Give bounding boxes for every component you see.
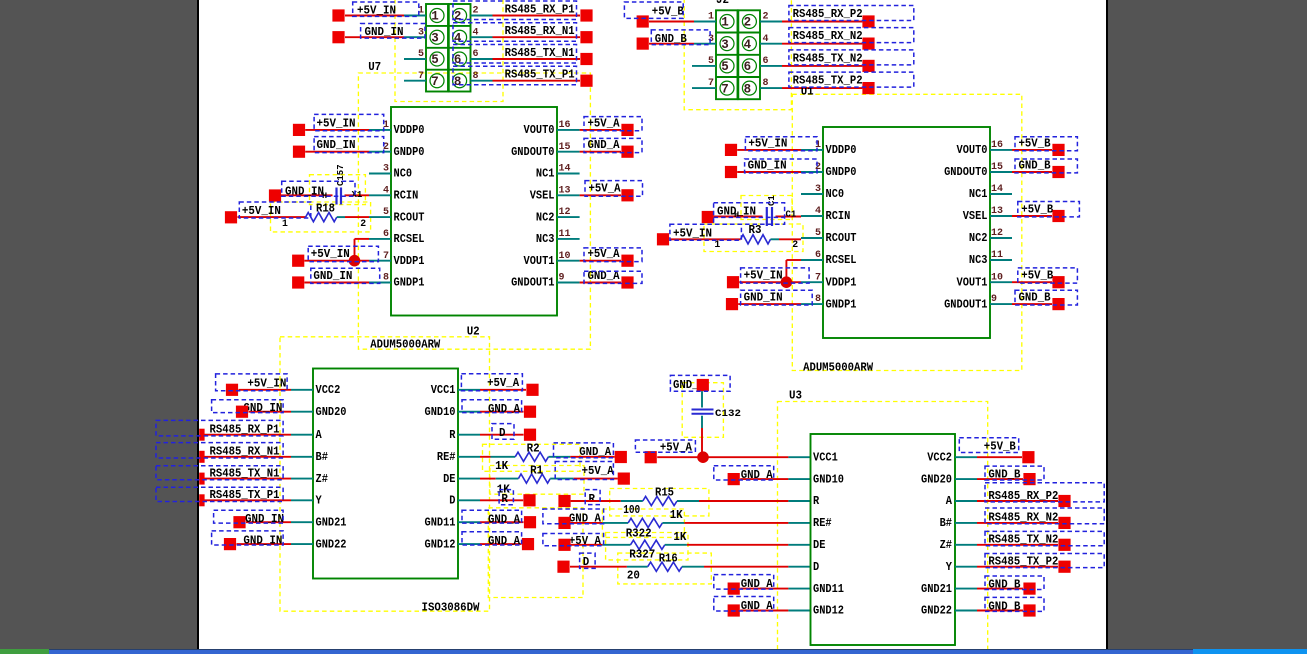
svg-text:3: 3 (383, 164, 389, 175)
svg-text:2: 2 (454, 10, 462, 24)
svg-text:D: D (449, 495, 455, 508)
svg-text:RS485_TX_N2: RS485_TX_N2 (793, 51, 863, 65)
svg-text:B#: B# (316, 451, 328, 464)
svg-text:+5V_IN: +5V_IN (744, 269, 783, 283)
svg-text:A: A (316, 429, 322, 442)
svg-text:+5V_A: +5V_A (487, 376, 520, 390)
svg-text:GND11: GND11 (813, 583, 844, 596)
svg-text:DE: DE (813, 539, 825, 552)
svg-text:ISO3086DW: ISO3086DW (422, 600, 481, 614)
svg-text:8: 8 (473, 71, 479, 82)
svg-text:1: 1 (721, 16, 729, 30)
svg-text:GND22: GND22 (921, 605, 952, 618)
svg-text:6: 6 (473, 49, 479, 60)
svg-text:+5V_IN: +5V_IN (748, 136, 787, 150)
svg-text:RS485_RX_N2: RS485_RX_N2 (988, 511, 1058, 525)
svg-text:6: 6 (744, 60, 752, 74)
svg-text:GND_A: GND_A (488, 402, 521, 416)
svg-text:13: 13 (991, 206, 1003, 217)
svg-text:2: 2 (744, 16, 752, 30)
svg-text:RS485_TX_N1: RS485_TX_N1 (210, 466, 280, 480)
svg-text:7: 7 (431, 75, 439, 89)
svg-text:VOUT1: VOUT1 (957, 276, 988, 289)
svg-text:7: 7 (815, 272, 821, 283)
svg-text:GND10: GND10 (813, 473, 844, 486)
svg-text:NC2: NC2 (536, 211, 555, 224)
svg-text:+5V_B: +5V_B (652, 5, 685, 19)
svg-text:1: 1 (815, 140, 821, 151)
svg-text:GND11: GND11 (425, 516, 456, 529)
svg-text:VOUT0: VOUT0 (957, 144, 988, 157)
svg-text:NC0: NC0 (826, 188, 845, 201)
svg-text:RS485_TX_P1: RS485_TX_P1 (210, 488, 280, 502)
svg-text:RCOUT: RCOUT (826, 232, 857, 245)
svg-text:R327: R327 (629, 548, 655, 562)
svg-text:2: 2 (792, 239, 798, 250)
svg-text:RS485_RX_N2: RS485_RX_N2 (793, 29, 863, 43)
svg-text:RCIN: RCIN (826, 210, 851, 223)
svg-text:Z#: Z# (940, 539, 952, 552)
svg-text:GND_IN: GND_IN (748, 158, 787, 172)
svg-text:8: 8 (744, 82, 752, 96)
svg-text:R18: R18 (316, 202, 335, 216)
svg-text:GND_IN: GND_IN (245, 512, 284, 526)
svg-text:GND21: GND21 (921, 583, 952, 596)
svg-text:GND_IN: GND_IN (365, 25, 404, 39)
svg-text:VCC1: VCC1 (813, 451, 838, 464)
svg-text:5: 5 (721, 60, 729, 74)
svg-text:Y: Y (946, 561, 952, 574)
svg-text:9: 9 (991, 294, 997, 305)
svg-text:VCC1: VCC1 (431, 384, 456, 397)
svg-text:14: 14 (991, 184, 1003, 195)
svg-text:C157: C157 (336, 164, 346, 186)
svg-text:U3: U3 (789, 389, 802, 403)
svg-text:12: 12 (559, 207, 571, 218)
svg-text:D: D (813, 561, 819, 574)
svg-text:NC2: NC2 (969, 232, 988, 245)
svg-text:RS485_RX_P2: RS485_RX_P2 (793, 7, 863, 21)
svg-text:VDDP0: VDDP0 (826, 144, 857, 157)
svg-text:GNDP0: GNDP0 (826, 166, 857, 179)
svg-text:3: 3 (431, 31, 439, 45)
svg-text:RS485_RX_P1: RS485_RX_P1 (505, 3, 575, 17)
svg-text:RS485_TX_N2: RS485_TX_N2 (988, 533, 1058, 547)
svg-text:GNDP1: GNDP1 (826, 298, 857, 311)
svg-text:R2: R2 (527, 442, 540, 456)
svg-text:11: 11 (559, 229, 571, 240)
svg-text:RCSEL: RCSEL (826, 254, 857, 267)
svg-text:+5V_B: +5V_B (1019, 136, 1052, 150)
svg-text:100: 100 (623, 503, 640, 517)
svg-text:NC3: NC3 (536, 233, 555, 246)
svg-text:D: D (499, 426, 506, 440)
svg-text:5: 5 (815, 228, 821, 239)
svg-text:NC3: NC3 (969, 254, 988, 267)
svg-text:VOUT0: VOUT0 (524, 124, 555, 137)
svg-text:6: 6 (454, 53, 462, 67)
svg-text:4: 4 (815, 206, 821, 217)
svg-text:U7: U7 (368, 60, 381, 74)
svg-text:GND_A: GND_A (488, 513, 521, 527)
svg-text:RCSEL: RCSEL (394, 233, 425, 246)
svg-text:1: 1 (282, 218, 288, 229)
svg-text:GND_IN: GND_IN (317, 138, 356, 152)
svg-text:+5V_B: +5V_B (1021, 269, 1054, 283)
svg-text:+5V_B: +5V_B (1021, 202, 1054, 216)
svg-text:1: 1 (431, 10, 439, 24)
svg-text:+5V_IN: +5V_IN (317, 116, 356, 130)
svg-text:GND10: GND10 (425, 406, 456, 419)
svg-text:R: R (449, 429, 455, 442)
svg-text:8: 8 (763, 78, 769, 89)
svg-text:8: 8 (815, 294, 821, 305)
svg-text:RS485_TX_P2: RS485_TX_P2 (988, 555, 1058, 569)
svg-text:Y: Y (316, 495, 322, 508)
svg-text:2: 2 (360, 218, 366, 229)
svg-text:13: 13 (559, 185, 571, 196)
svg-text:RS485_RX_P1: RS485_RX_P1 (210, 423, 280, 437)
svg-text:6: 6 (815, 250, 821, 261)
svg-text:3: 3 (815, 184, 821, 195)
svg-text:Z#: Z# (316, 473, 328, 486)
svg-text:VCC2: VCC2 (927, 451, 952, 464)
svg-text:GND_B: GND_B (1019, 158, 1052, 172)
svg-text:J2: J2 (716, 0, 729, 7)
svg-text:RS485_RX_N1: RS485_RX_N1 (210, 445, 280, 459)
svg-text:RCIN: RCIN (394, 190, 419, 203)
svg-text:ADUM5000ARW: ADUM5000ARW (370, 338, 441, 352)
svg-text:8: 8 (454, 75, 462, 89)
svg-text:NC0: NC0 (394, 168, 413, 181)
svg-text:VDDP0: VDDP0 (394, 124, 425, 137)
svg-text:4: 4 (473, 27, 479, 38)
svg-text:NC1: NC1 (969, 188, 988, 201)
svg-text:GND_IN: GND_IN (313, 269, 352, 283)
svg-text:GNDOUT0: GNDOUT0 (511, 146, 554, 159)
svg-text:VCC2: VCC2 (316, 384, 341, 397)
svg-text:VSEL: VSEL (963, 210, 988, 223)
svg-text:GNDOUT0: GNDOUT0 (944, 166, 987, 179)
svg-text:DE: DE (443, 473, 455, 486)
svg-text:GND_B: GND_B (1019, 291, 1052, 305)
svg-text:NC1: NC1 (536, 168, 555, 181)
svg-text:A: A (946, 495, 952, 508)
svg-text:GND_A: GND_A (488, 534, 521, 548)
svg-text:R1: R1 (530, 464, 543, 478)
svg-text:VOUT1: VOUT1 (524, 255, 555, 268)
svg-text:+5V_IN: +5V_IN (311, 247, 350, 261)
svg-text:+5V_A: +5V_A (588, 247, 621, 261)
svg-text:6: 6 (763, 56, 769, 67)
svg-text:X1: X1 (352, 190, 363, 200)
svg-text:VDDP1: VDDP1 (394, 255, 425, 268)
svg-text:RS485_RX_P2: RS485_RX_P2 (988, 489, 1058, 503)
svg-text:R16: R16 (659, 552, 678, 566)
svg-text:VDDP1: VDDP1 (826, 276, 857, 289)
svg-text:GNDP1: GNDP1 (394, 277, 425, 290)
svg-text:2: 2 (473, 6, 479, 17)
svg-text:9: 9 (559, 273, 565, 284)
svg-text:4: 4 (383, 185, 389, 196)
svg-text:+5V_A: +5V_A (589, 182, 622, 196)
svg-text:B#: B# (940, 517, 952, 530)
svg-text:GND20: GND20 (316, 406, 347, 419)
svg-text:GNDOUT1: GNDOUT1 (511, 277, 554, 290)
svg-text:16: 16 (559, 120, 571, 131)
svg-text:10: 10 (559, 251, 571, 262)
svg-text:R15: R15 (655, 486, 674, 500)
svg-text:GNDP0: GNDP0 (394, 146, 425, 159)
svg-text:GND20: GND20 (921, 473, 952, 486)
svg-text:+5V_A: +5V_A (582, 464, 615, 478)
svg-text:+5V_IN: +5V_IN (357, 3, 396, 17)
svg-text:2: 2 (763, 12, 769, 23)
svg-text:+5V_IN: +5V_IN (242, 204, 281, 218)
svg-text:H: H (734, 210, 739, 220)
svg-text:GND12: GND12 (425, 538, 456, 551)
svg-text:R: R (813, 495, 819, 508)
svg-text:C1: C1 (767, 195, 777, 206)
svg-text:VSEL: VSEL (530, 190, 555, 203)
svg-text:6: 6 (383, 229, 389, 240)
svg-text:RS485_TX_N1: RS485_TX_N1 (505, 46, 575, 60)
svg-text:GND22: GND22 (316, 538, 347, 551)
svg-text:R322: R322 (626, 527, 652, 541)
svg-text:8: 8 (383, 273, 389, 284)
svg-text:14: 14 (559, 164, 571, 175)
svg-text:4: 4 (454, 31, 462, 45)
svg-text:15: 15 (991, 162, 1003, 173)
svg-text:GND_A: GND_A (579, 445, 612, 459)
svg-text:7: 7 (721, 82, 729, 96)
svg-text:GNDOUT1: GNDOUT1 (944, 298, 987, 311)
svg-text:RE#: RE# (437, 451, 456, 464)
svg-text:7: 7 (383, 251, 389, 262)
svg-text:1K: 1K (670, 508, 684, 522)
svg-text:C132: C132 (715, 408, 741, 419)
svg-text:10: 10 (991, 272, 1003, 283)
svg-text:2: 2 (815, 162, 821, 173)
svg-text:4: 4 (763, 34, 769, 45)
svg-text:+5V_A: +5V_A (588, 116, 621, 130)
svg-text:GND12: GND12 (813, 605, 844, 618)
svg-text:12: 12 (991, 228, 1003, 239)
svg-text:GND_A: GND_A (588, 138, 621, 152)
svg-text:ADUM5000ARW: ADUM5000ARW (803, 360, 874, 374)
svg-text:1K: 1K (673, 530, 687, 544)
svg-text:4: 4 (744, 38, 752, 52)
svg-text:C1: C1 (786, 210, 797, 220)
svg-text:RS485_TX_P1: RS485_TX_P1 (505, 68, 575, 82)
svg-text:RS485_RX_N1: RS485_RX_N1 (505, 24, 575, 38)
svg-text:RCOUT: RCOUT (394, 211, 425, 224)
svg-text:U2: U2 (467, 325, 480, 339)
svg-text:3: 3 (721, 38, 729, 52)
svg-text:1K: 1K (495, 459, 509, 473)
svg-text:GND_IN: GND_IN (744, 291, 783, 305)
svg-text:GND21: GND21 (316, 516, 347, 529)
svg-text:5: 5 (431, 53, 439, 67)
svg-text:+5V_IN: +5V_IN (673, 227, 712, 241)
svg-text:16: 16 (991, 140, 1003, 151)
svg-text:20: 20 (627, 569, 640, 583)
svg-text:5: 5 (383, 207, 389, 218)
svg-text:11: 11 (991, 250, 1003, 261)
svg-text:15: 15 (559, 142, 571, 153)
svg-text:+5V_IN: +5V_IN (247, 377, 286, 391)
svg-text:RE#: RE# (813, 517, 832, 530)
svg-text:+5V_B: +5V_B (984, 440, 1017, 454)
